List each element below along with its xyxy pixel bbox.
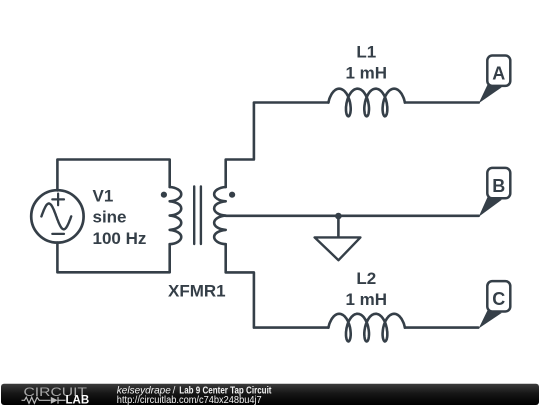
svg-text:C: C (492, 289, 505, 309)
inductor L2 (328, 314, 405, 342)
voltage source V1: minus sign (52, 233, 64, 235)
svg-text:A: A (492, 64, 505, 84)
terminal flag C: box (487, 281, 510, 311)
wire: secondary top to L1 (226, 103, 329, 188)
svg-text:B: B (492, 176, 505, 196)
wire: center tap to node B (226, 215, 479, 218)
transformer XFMR1: primary phase dot (161, 192, 167, 198)
svg-text:L2: L2 (356, 269, 376, 288)
transformer XFMR1: primary coil (170, 187, 182, 244)
CircuitLab logo: diode symbol (51, 397, 58, 404)
transformer XFMR1: core bars (194, 186, 201, 244)
wire: secondary bottom to L2 (226, 244, 329, 327)
transformer XFMR1: secondary phase dot (229, 192, 235, 198)
wire: junction to ground (337, 216, 340, 237)
wire: L2 to terminal C (405, 326, 478, 329)
terminal flag A: box (487, 56, 510, 86)
CircuitLab logo: schematic line with resistor (22, 397, 66, 404)
voltage source V1: circle (31, 190, 83, 242)
ground symbol (315, 237, 361, 260)
svg-text:1 mH: 1 mH (346, 290, 388, 309)
transformer XFMR1: secondary coil (214, 187, 226, 244)
terminal flag B: box (487, 168, 510, 198)
terminal flag B: pointer (479, 197, 502, 217)
svg-text:100 Hz: 100 Hz (93, 229, 147, 248)
voltage source V1: plus sign (52, 194, 64, 206)
junction dot at ground tap (335, 213, 342, 220)
voltage source V1: sine symbol (41, 204, 71, 230)
wire: source bottom to primary bottom (57, 243, 169, 273)
svg-text:LAB: LAB (66, 395, 90, 405)
svg-text:http://circuitlab.com/c74bx248: http://circuitlab.com/c74bx248bu4j7 (117, 395, 262, 405)
svg-text:sine: sine (93, 208, 127, 227)
svg-text:XFMR1: XFMR1 (168, 282, 226, 301)
terminal flag A: pointer (479, 85, 502, 104)
svg-text:V1: V1 (93, 186, 114, 205)
inductor L1 (328, 89, 405, 117)
wire: source top to primary top (57, 160, 169, 191)
terminal flag C: pointer (479, 310, 502, 328)
wire: L1 to terminal A (405, 101, 479, 104)
svg-text:1 mH: 1 mH (346, 63, 388, 82)
svg-text:L1: L1 (356, 42, 376, 61)
